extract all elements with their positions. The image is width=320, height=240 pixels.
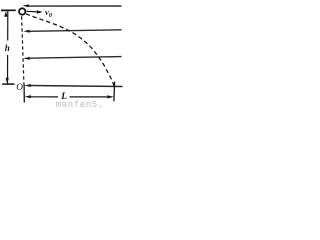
L dimension right arrow <box>70 96 110 98</box>
v0 arrow <box>26 10 38 13</box>
h dimension up arrowhead <box>4 11 7 17</box>
vertical dashed drop line <box>22 16 24 84</box>
wind line 3 <box>29 57 122 59</box>
dashed trajectory <box>26 14 115 87</box>
watermark <box>56 100 124 120</box>
label L <box>61 92 67 102</box>
platform / top reference line <box>1 9 16 11</box>
ground line <box>30 86 123 87</box>
h dimension vertical line lower segment <box>7 55 9 84</box>
right extension line at landing point <box>113 82 116 102</box>
h dimension bottom cap <box>2 83 14 85</box>
ball <box>19 8 25 14</box>
wind line 2 <box>29 30 122 32</box>
h dimension down arrowhead <box>6 78 9 84</box>
wind line 1 <box>28 5 122 7</box>
label O <box>16 83 23 93</box>
h dimension vertical line upper segment <box>7 11 9 41</box>
label v0 <box>45 7 52 19</box>
label h <box>5 43 10 53</box>
left extension line below O <box>23 84 25 103</box>
L dimension left arrow <box>29 96 58 98</box>
